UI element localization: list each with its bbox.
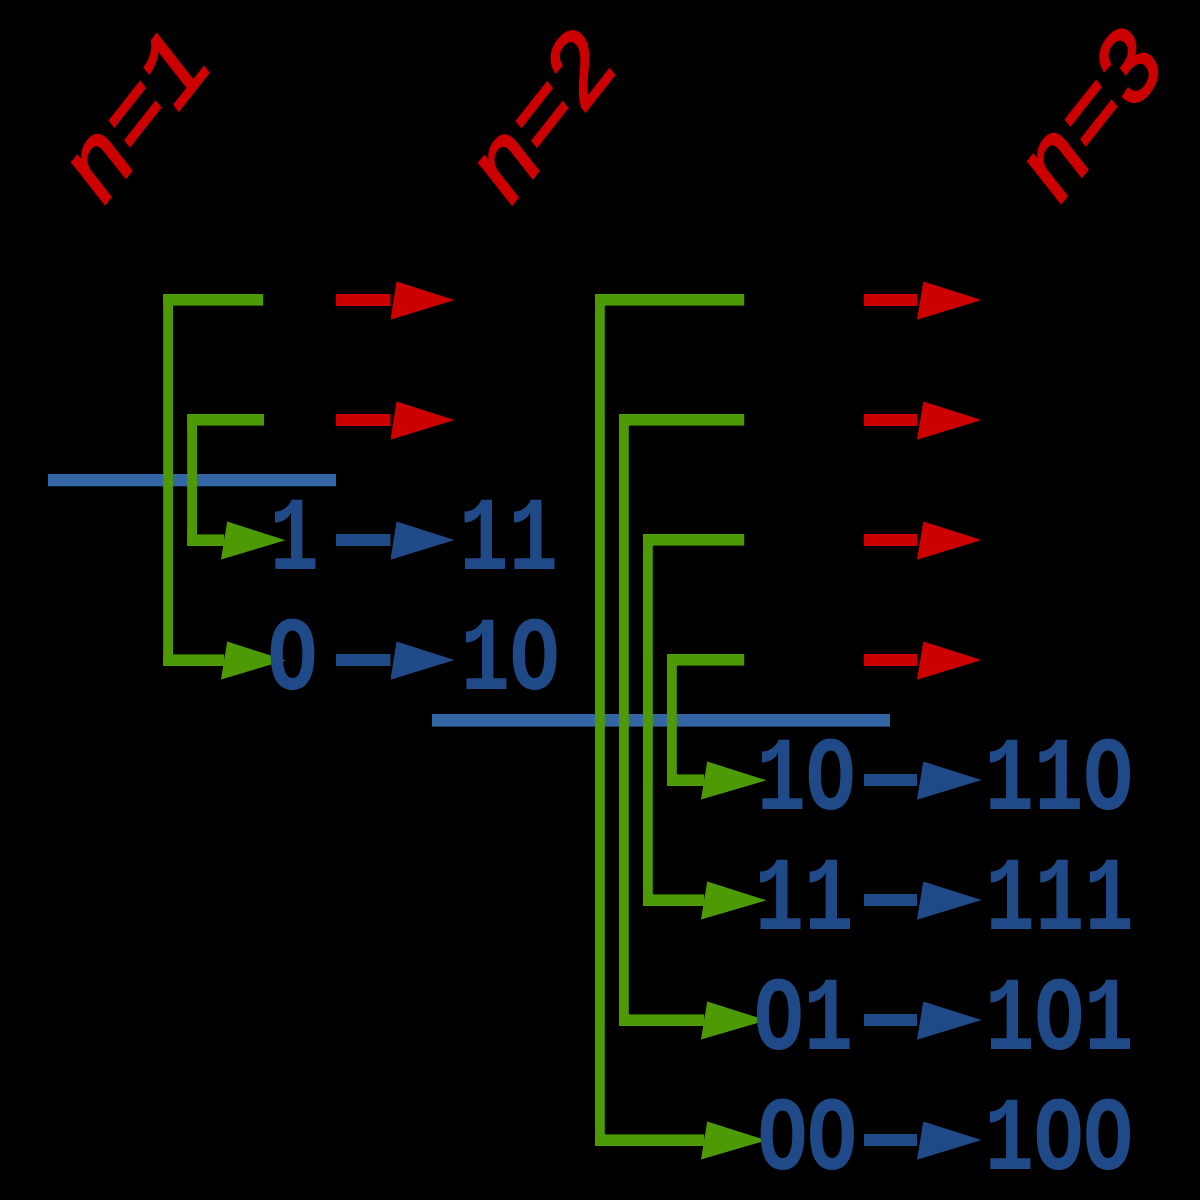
svg-text:11O: 11O: [984, 723, 1132, 841]
svg-text:111: 111: [985, 843, 1133, 961]
svg-text:O1: O1: [754, 963, 853, 1081]
svg-text:1O: 1O: [756, 723, 855, 841]
svg-text:O: O: [268, 603, 317, 721]
svg-text:OO: OO: [758, 1083, 857, 1200]
svg-text:1O: 1O: [460, 603, 559, 721]
svg-text:1OO: 1OO: [984, 1083, 1132, 1200]
svg-text:11: 11: [755, 843, 854, 961]
svg-text:1O1: 1O1: [985, 963, 1133, 1081]
svg-text:1: 1: [269, 483, 318, 601]
svg-text:11: 11: [459, 483, 558, 601]
